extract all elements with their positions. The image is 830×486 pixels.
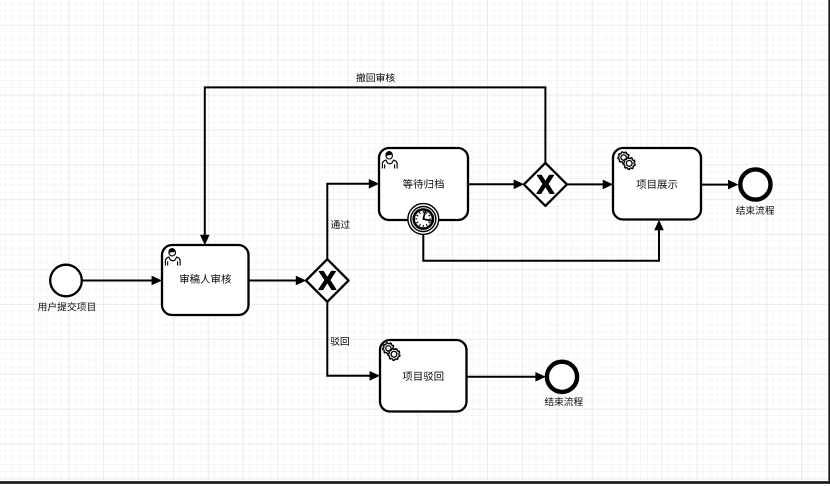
flow: start to 审稿人审核	[82, 280, 153, 282]
exclusive gateway 2	[524, 163, 567, 206]
flow: 项目展示 to end event 1	[701, 184, 729, 186]
flow: timer to 项目展示	[423, 229, 659, 261]
label 等待归档	[403, 179, 444, 189]
flow: 审稿人审核 to gateway1	[249, 280, 297, 282]
user task 审稿人审核	[162, 245, 249, 315]
end event 1: 结束流程	[740, 169, 770, 199]
user task 等待归档	[379, 148, 468, 220]
bottom border line	[0, 481, 830, 484]
flow: gateway2 to 项目展示	[567, 183, 604, 185]
flow: 项目驳回 to end event 2	[467, 376, 537, 378]
label 结束流程 (bottom)	[545, 397, 583, 406]
flow: 等待归档 to gateway2	[468, 183, 515, 185]
label 通过	[331, 220, 350, 229]
right border line	[828, 0, 830, 484]
label 驳回	[330, 337, 349, 346]
label 审稿人审核	[180, 274, 231, 284]
label 项目驳回	[403, 371, 444, 380]
service task 项目驳回	[380, 340, 467, 412]
label 结束流程 (top)	[736, 206, 774, 215]
flow 撤回审核: gateway2 back to 审稿人审核	[205, 87, 546, 236]
flow 驳回: gateway1 to 项目驳回	[327, 302, 371, 376]
timer boundary event on 等待归档	[408, 204, 439, 235]
label 用户提交项目	[38, 302, 95, 311]
end event 2: 结束流程	[547, 362, 577, 392]
label 项目展示	[636, 180, 677, 189]
start event: 用户提交项目	[50, 265, 82, 297]
exclusive gateway 1	[306, 259, 349, 302]
service task 项目展示	[613, 148, 701, 220]
flow 通过: gateway1 to 等待归档	[327, 184, 370, 259]
label 撤回审核	[356, 73, 395, 82]
